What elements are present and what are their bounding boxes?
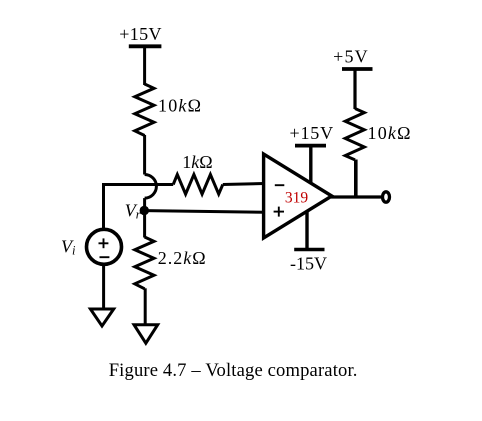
op-amp part number 319 [285, 190, 309, 207]
output terminal (open circle) [383, 192, 390, 202]
svg-text:+15V: +15V [290, 123, 334, 143]
svg-text:10kΩ: 10kΩ [158, 95, 202, 115]
source Vi minus sign [100, 256, 110, 258]
wire from +15V bar to resistor 10k left [143, 46, 146, 85]
resistor 2.2k (vertical) [135, 237, 154, 289]
power -15V label (op-amp negative supply) [290, 254, 327, 274]
wire from resistor 1k to op-amp inverting input [223, 184, 264, 185]
output wire from op-amp to output terminal [331, 195, 381, 198]
power -15V terminal bar (op-amp negative supply) [294, 248, 324, 251]
wire from resistor 10k right down to output node [354, 160, 358, 198]
source Vi plus sign [99, 238, 109, 248]
ground (under resistor 2.2k) [134, 325, 158, 344]
svg-text:Vi: Vi [61, 236, 76, 257]
wire from +5V bar to resistor 10k right [353, 69, 356, 109]
power +15V terminal bar (left supply) [129, 44, 162, 48]
value label 1kOhm [182, 152, 212, 172]
caption: Figure 4.7 - Voltage comparator. [109, 360, 358, 381]
svg-text:-15V: -15V [290, 254, 327, 274]
wire from +15V bar to op-amp top edge [309, 146, 312, 186]
svg-text:+5V: +5V [333, 46, 369, 66]
op-amp non-inverting input plus sign [274, 207, 284, 217]
value label 2.2kOhm [158, 248, 207, 268]
wire corner down to source Vi [102, 183, 105, 231]
power +15V label (op-amp positive supply) [290, 123, 334, 143]
svg-text:10kΩ: 10kΩ [368, 123, 412, 143]
resistor 10k (right, vertical) [345, 109, 364, 160]
svg-text:1kΩ: 1kΩ [182, 152, 212, 172]
svg-text:Vr: Vr [125, 201, 141, 222]
svg-text:Figure 4.7 – Voltage comparato: Figure 4.7 – Voltage comparator. [109, 360, 358, 381]
op-amp inverting input minus sign [275, 184, 285, 186]
wire from op-amp bottom edge to -15V bar [305, 210, 308, 250]
svg-text:2.2kΩ: 2.2kΩ [158, 248, 207, 268]
wire hop (vertical wire crossing over horizontal wire) [145, 175, 157, 199]
wire from hop to node Vr and resistor 2.2k [143, 198, 146, 237]
node label Vr [125, 201, 141, 222]
value label 10kOhm (left) [158, 95, 202, 115]
resistor 1k (horizontal) [173, 175, 223, 195]
op-amp U1 triangle body [264, 154, 332, 238]
wire from resistor 10k left down to hop [143, 135, 146, 175]
power +5V label [333, 46, 369, 66]
resistor 10k (left, vertical) [135, 84, 154, 136]
wire from node Vr to op-amp non-inverting input [146, 211, 264, 213]
power +15V label (left supply) [119, 24, 162, 44]
source Vi circle [87, 229, 122, 264]
svg-text:319: 319 [285, 190, 309, 207]
source label Vi [61, 236, 76, 257]
horizontal wire from Vi branch to resistor 1k (crosses under hop) [102, 183, 173, 186]
svg-text:+15V: +15V [119, 24, 162, 44]
ground (under source Vi) [90, 309, 113, 326]
node Vr junction dot [140, 206, 149, 215]
power +5V terminal bar [342, 67, 373, 71]
wire from resistor 2.2k to ground [144, 288, 147, 326]
value label 10kOhm (right) [368, 123, 412, 143]
wire from source Vi to ground [102, 264, 105, 311]
power +15V terminal bar (op-amp positive supply) [295, 144, 326, 148]
